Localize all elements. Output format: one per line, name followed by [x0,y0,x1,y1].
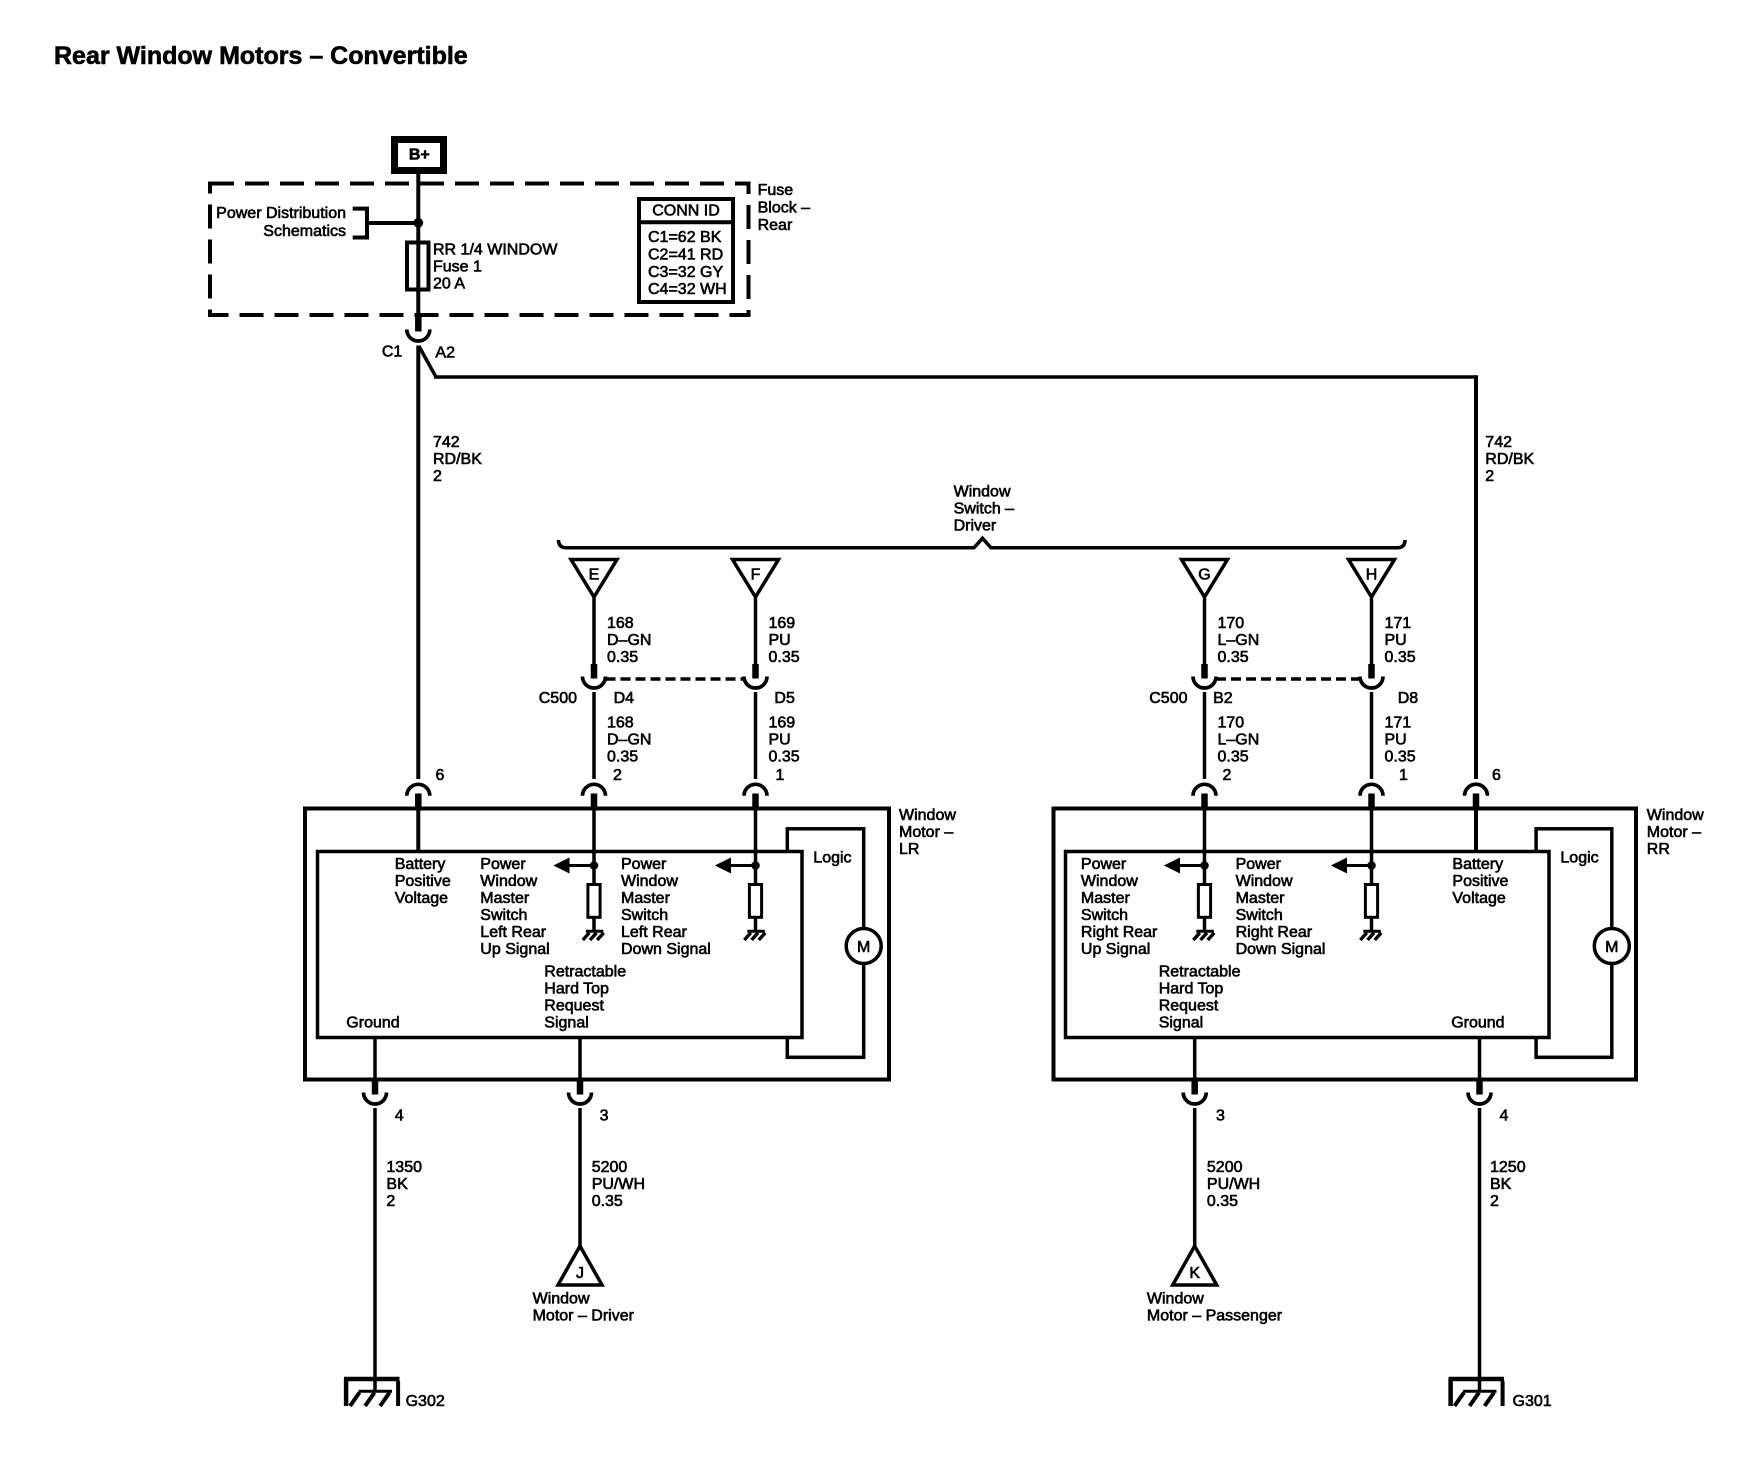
svg-text:J: J [576,1265,584,1282]
svg-text:PU/WH: PU/WH [592,1176,645,1193]
svg-text:2: 2 [386,1193,395,1210]
svg-text:C3=32 GY: C3=32 GY [648,264,723,281]
svg-text:Ground: Ground [346,1015,399,1032]
svg-text:Motor –: Motor – [899,824,953,841]
svg-text:C500: C500 [1149,690,1187,707]
wire B+ down through fuse to connector C1 [407,243,429,290]
svg-text:D–GN: D–GN [607,632,651,649]
svg-text:1350: 1350 [386,1159,422,1176]
svg-text:G: G [1198,567,1210,584]
svg-text:Request: Request [1159,998,1219,1015]
svg-text:1: 1 [1399,767,1408,784]
svg-text:D5: D5 [774,690,795,707]
wire C500 to window motor (F) [754,692,758,779]
connector pin 6 (RR battery) [1465,784,1488,808]
wire G to C500 [1203,597,1207,664]
svg-text:742: 742 [433,434,460,451]
svg-text:Down Signal: Down Signal [621,941,711,958]
svg-text:LR: LR [899,841,919,858]
connector pin 4 (RR ground) [1468,1080,1491,1105]
label Power Distribution Schematics with bracket [216,205,367,240]
svg-text:Battery: Battery [395,856,446,873]
svg-text:Driver: Driver [954,518,997,535]
svg-text:C4=32 WH: C4=32 WH [648,281,727,298]
svg-text:Master: Master [1081,890,1131,907]
logic block (LR) [787,829,863,1058]
svg-text:Window: Window [621,873,678,890]
svg-text:RR 1/4 WINDOW: RR 1/4 WINDOW [433,242,558,259]
svg-text:Down Signal: Down Signal [1236,941,1326,958]
svg-text:K: K [1189,1265,1200,1282]
svg-text:2: 2 [1223,767,1232,784]
svg-text:Master: Master [621,890,671,907]
connector C500 D5 (pin stub + cup) [744,664,767,688]
svg-text:RD/BK: RD/BK [433,451,482,468]
svg-text:C2=41 RD: C2=41 RD [648,246,723,263]
wire F to C500 [754,597,758,664]
svg-text:Master: Master [480,890,530,907]
wire from power distribution to B+ feed [367,221,418,225]
connector pin 6 (LR battery) [407,784,430,808]
svg-text:0.35: 0.35 [769,649,800,666]
svg-text:G302: G302 [406,1393,445,1410]
window motor LR inner box [318,852,803,1038]
connector triangle F [733,560,779,598]
svg-text:PU: PU [769,732,791,749]
connector triangle K [1173,1246,1217,1285]
svg-text:Window: Window [533,1291,590,1308]
svg-text:D4: D4 [614,690,635,707]
brace for Window Switch - Driver [559,538,1406,548]
svg-text:Positive: Positive [1452,873,1508,890]
svg-text:Hard Top: Hard Top [544,981,609,998]
svg-text:Power Distribution: Power Distribution [216,205,346,222]
motor M (RR) [1594,929,1629,964]
svg-text:168: 168 [607,615,634,632]
down signal leg (RR): wire, arrow, resistor, ground [1332,809,1378,930]
svg-text:1: 1 [776,767,785,784]
connector pin 2 (LR up) [583,784,606,808]
svg-text:E: E [589,567,600,584]
svg-text:5200: 5200 [592,1159,628,1176]
connector pin 4 (LR ground) [364,1080,387,1105]
motor M (LR) [846,929,881,964]
svg-text:Request: Request [544,998,604,1015]
svg-text:Schematics: Schematics [263,223,346,240]
svg-text:Voltage: Voltage [1452,890,1505,907]
connector C500 B2 (pin stub + cup) [1193,664,1216,688]
ground G302 [344,1379,400,1406]
svg-text:Battery: Battery [1452,856,1503,873]
chassis ground (inside RR down leg) [1360,931,1381,940]
svg-text:Retractable: Retractable [1159,964,1241,981]
svg-text:Window: Window [899,807,956,824]
svg-text:BK: BK [1490,1176,1512,1193]
wire H to C500 [1370,597,1374,664]
svg-text:BK: BK [386,1176,408,1193]
svg-text:Voltage: Voltage [395,890,448,907]
svg-text:742: 742 [1485,434,1512,451]
svg-text:171: 171 [1385,615,1412,632]
svg-text:Rear: Rear [758,217,793,234]
svg-text:Hard Top: Hard Top [1159,981,1224,998]
connector triangle H [1349,560,1395,598]
svg-text:Block –: Block – [758,200,811,217]
wire C500 to window motor (E) [592,692,596,779]
CONN ID table [637,199,735,302]
svg-text:Up Signal: Up Signal [1081,941,1150,958]
svg-text:170: 170 [1218,615,1245,632]
svg-text:Retractable: Retractable [544,964,626,981]
svg-text:Window: Window [1081,873,1138,890]
svg-text:Left Rear: Left Rear [621,924,687,941]
svg-text:Ground: Ground [1451,1015,1504,1032]
svg-text:168: 168 [607,715,634,732]
svg-text:Logic: Logic [813,850,851,867]
ground wire inside LR box [373,1038,377,1082]
down signal leg (LR): wire, arrow, resistor, ground [716,809,762,930]
svg-text:B+: B+ [409,147,430,164]
svg-text:5200: 5200 [1207,1159,1243,1176]
request signal wire inside RR box [1193,1038,1197,1082]
logic block (RR) [1536,829,1612,1058]
node B+ (battery positive) [395,140,444,171]
svg-text:0.35: 0.35 [592,1193,623,1210]
chassis ground (inside LR down leg) [744,931,765,940]
connector C500 D4 (pin stub + cup) [583,664,606,688]
svg-text:Window: Window [1647,807,1704,824]
svg-text:PU: PU [769,632,791,649]
svg-text:Signal: Signal [544,1015,588,1032]
svg-text:Fuse: Fuse [758,182,794,199]
svg-text:Switch: Switch [480,907,527,924]
connector pin 2 (RR up) [1193,784,1216,808]
svg-text:RD/BK: RD/BK [1485,451,1534,468]
svg-text:4: 4 [1500,1108,1509,1125]
svg-text:PU/WH: PU/WH [1207,1176,1260,1193]
svg-text:Power: Power [1081,856,1127,873]
svg-text:B2: B2 [1213,690,1233,707]
svg-text:Logic: Logic [1560,850,1598,867]
wire 1250 BK to G301 [1478,1108,1482,1391]
svg-text:C1=62 BK: C1=62 BK [648,229,722,246]
wire 5200 PU/WH to K [1193,1108,1197,1247]
svg-text:Left Rear: Left Rear [480,924,546,941]
svg-text:L–GN: L–GN [1218,632,1260,649]
svg-text:C1: C1 [382,344,403,361]
svg-text:G301: G301 [1513,1393,1552,1410]
svg-text:H: H [1366,567,1378,584]
svg-text:2: 2 [1485,468,1494,485]
svg-text:C500: C500 [539,690,577,707]
battery wire inside LR box [416,809,420,852]
connector pin 1 (RR down) [1360,784,1383,808]
svg-text:Motor – Passenger: Motor – Passenger [1147,1308,1283,1325]
connector C1 / A2 [407,315,430,341]
svg-text:Window: Window [954,484,1011,501]
svg-text:1250: 1250 [1490,1159,1526,1176]
svg-text:Switch: Switch [1081,907,1128,924]
ground wire inside RR box [1478,1038,1482,1082]
svg-text:PU: PU [1385,632,1407,649]
svg-text:F: F [751,567,761,584]
svg-text:Motor – Driver: Motor – Driver [533,1308,635,1325]
svg-text:M: M [857,939,870,956]
svg-text:Master: Master [1236,890,1286,907]
svg-text:2: 2 [1490,1193,1499,1210]
svg-text:0.35: 0.35 [1207,1193,1238,1210]
svg-text:Right Rear: Right Rear [1236,924,1313,941]
connector C500 D8 (pin stub + cup) [1360,664,1383,688]
connector triangle E [571,560,617,598]
svg-text:Motor –: Motor – [1647,824,1701,841]
svg-text:169: 169 [769,615,796,632]
svg-text:Positive: Positive [395,873,451,890]
svg-text:Up Signal: Up Signal [480,941,549,958]
up signal leg (LR): wire, arrow, resistor, ground [555,809,601,930]
svg-text:PU: PU [1385,732,1407,749]
battery wire inside RR box [1474,809,1478,852]
svg-text:Window: Window [480,873,537,890]
svg-text:0.35: 0.35 [1385,649,1416,666]
svg-text:2: 2 [433,468,442,485]
connector pin 3 (RR request) [1183,1080,1206,1105]
svg-text:0.35: 0.35 [607,649,638,666]
svg-text:0.35: 0.35 [607,749,638,766]
svg-text:A2: A2 [435,345,455,362]
svg-text:Switch: Switch [1236,907,1283,924]
svg-text:D–GN: D–GN [607,732,651,749]
fuse block - rear (dashed enclosure) [210,184,749,316]
svg-text:L–GN: L–GN [1218,732,1260,749]
dashed connector link C500 left [606,677,745,681]
svg-text:2: 2 [613,767,622,784]
connector triangle J [558,1246,602,1285]
wire 1350 BK to G302 [373,1108,377,1391]
svg-text:0.35: 0.35 [1218,749,1249,766]
wire C500 to window motor (H) [1370,692,1374,779]
svg-text:170: 170 [1218,715,1245,732]
chassis ground (inside RR up leg) [1193,931,1214,940]
dashed connector link C500 right [1216,677,1360,681]
svg-text:RR: RR [1647,841,1670,858]
svg-text:0.35: 0.35 [1218,649,1249,666]
svg-text:Fuse 1: Fuse 1 [433,259,482,276]
wire E to C500 [592,597,596,664]
svg-text:D8: D8 [1398,690,1419,707]
wire 742 RD/BK left run [416,346,420,780]
up signal leg (RR): wire, arrow, resistor, ground [1165,809,1211,930]
chassis ground (inside LR up leg) [583,931,604,940]
svg-text:0.35: 0.35 [1385,749,1416,766]
svg-text:Rear Window Motors – Convertib: Rear Window Motors – Convertible [54,42,468,70]
window motor LR outer box [305,809,889,1080]
svg-text:Window: Window [1147,1291,1204,1308]
window motor RR inner box [1066,852,1550,1038]
svg-text:6: 6 [436,767,445,784]
svg-text:Right Rear: Right Rear [1081,924,1158,941]
wire branch A2 to right run [419,346,1476,779]
svg-text:3: 3 [600,1108,609,1125]
svg-text:Switch: Switch [621,907,668,924]
connector pin 1 (LR down) [744,784,767,808]
svg-text:Power: Power [480,856,526,873]
svg-text:Signal: Signal [1159,1015,1203,1032]
svg-text:3: 3 [1216,1108,1225,1125]
svg-text:6: 6 [1492,767,1501,784]
request signal wire inside LR box [578,1038,582,1082]
wire C500 to window motor (G) [1203,692,1207,779]
window motor RR outer box [1054,809,1637,1080]
svg-text:20 A: 20 A [433,276,465,293]
ground G301 [1449,1379,1505,1406]
svg-text:169: 169 [769,715,796,732]
svg-text:4: 4 [395,1108,404,1125]
svg-text:M: M [1605,939,1618,956]
svg-text:Switch –: Switch – [954,501,1015,518]
svg-text:0.35: 0.35 [769,749,800,766]
svg-text:171: 171 [1385,715,1412,732]
connector pin 3 (LR request) [569,1080,592,1105]
junction dot [414,218,423,227]
svg-text:CONN ID: CONN ID [652,202,720,219]
connector triangle G [1182,560,1228,598]
wire 5200 PU/WH to J [578,1108,582,1247]
svg-text:Power: Power [621,856,667,873]
svg-text:Window: Window [1236,873,1293,890]
svg-text:Power: Power [1236,856,1282,873]
